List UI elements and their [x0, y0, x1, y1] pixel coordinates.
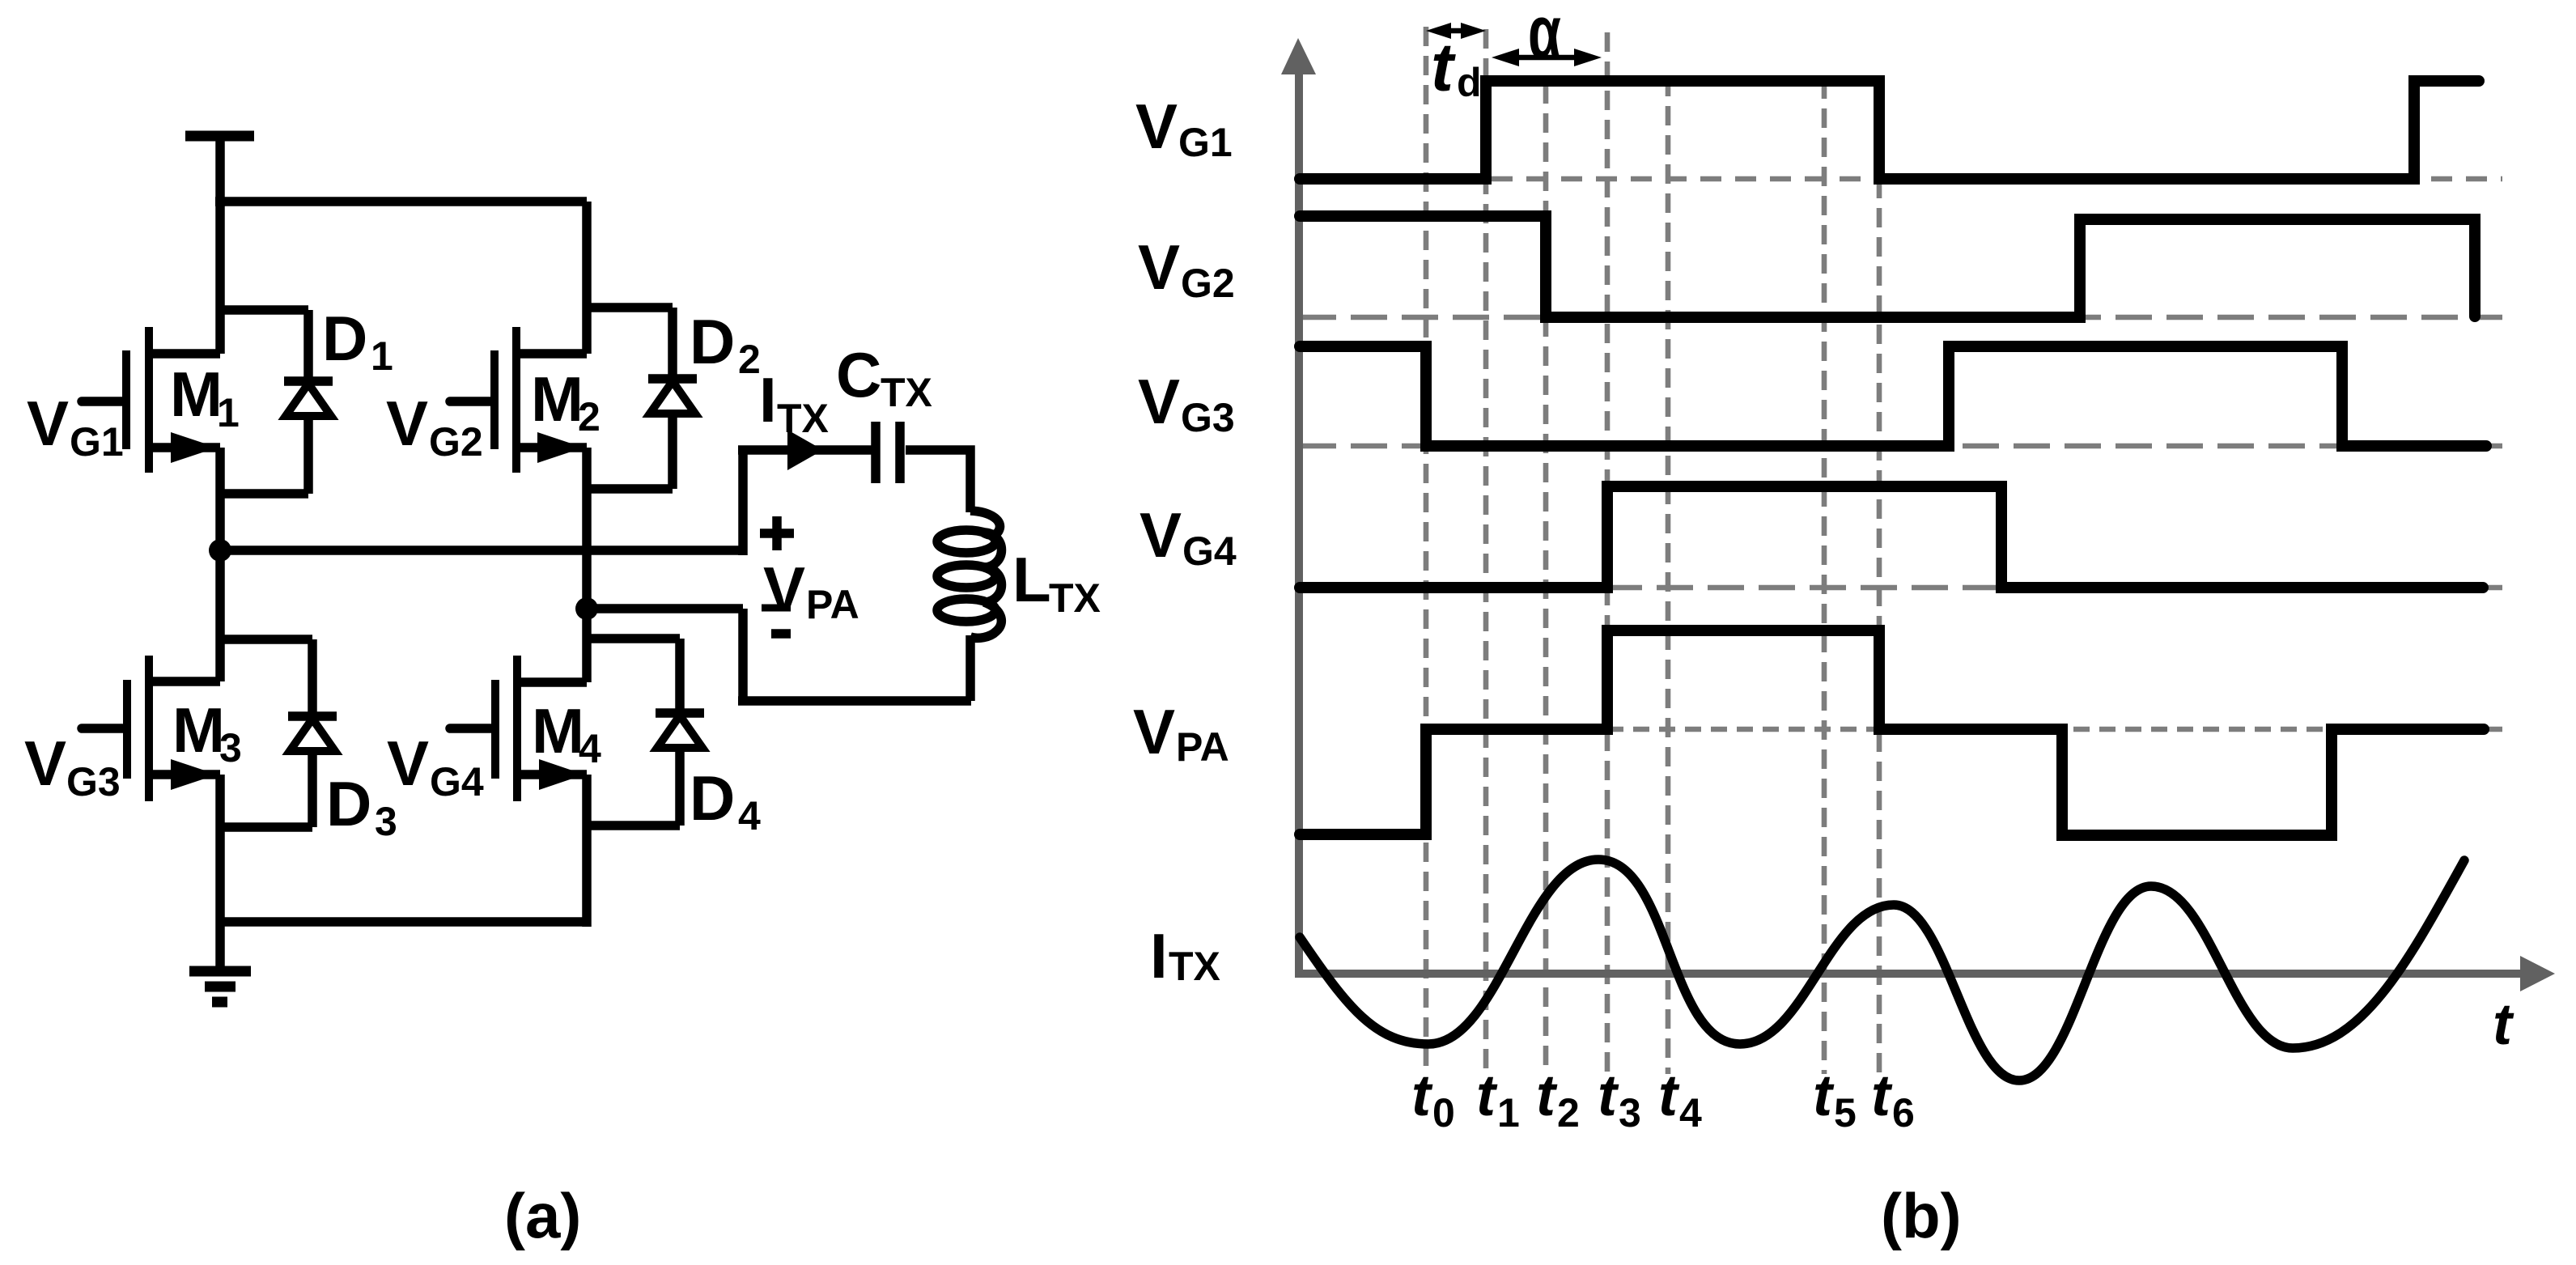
- svg-text:3: 3: [219, 725, 242, 770]
- diode D4: [656, 639, 704, 826]
- label VG3: [24, 728, 121, 804]
- t axis: [1295, 956, 2555, 991]
- label VG1 row: [1135, 91, 1233, 165]
- wire ITX: [738, 445, 872, 455]
- svg-text:TX: TX: [1049, 575, 1101, 621]
- label D1: [322, 303, 393, 379]
- wire M4 source: [582, 775, 592, 927]
- svg-text:M: M: [531, 363, 584, 435]
- y axis: [1281, 38, 1316, 978]
- waveform VG1: [1300, 81, 2479, 179]
- wire D4 top tee: [587, 634, 680, 643]
- svg-text:M: M: [172, 694, 225, 766]
- label M1: [170, 359, 240, 435]
- label t5: [1813, 1063, 1857, 1136]
- ground symbol: [189, 971, 251, 1002]
- wire M2 source: [582, 448, 592, 609]
- node t6 gridline: [1877, 179, 1882, 1074]
- svg-text:G1: G1: [1178, 120, 1233, 165]
- wire D2 bottom tee: [587, 484, 673, 494]
- node t2 gridline: [1543, 84, 1549, 1074]
- diode D3: [288, 639, 337, 827]
- wire M1 source: [215, 448, 225, 550]
- node t1 gridline: [1483, 29, 1489, 1074]
- svg-text:1: 1: [217, 390, 240, 435]
- label t2: [1536, 1063, 1580, 1136]
- label ITX row: [1150, 920, 1220, 991]
- svg-text:G1: G1: [70, 419, 124, 465]
- label VG3 row: [1138, 366, 1235, 440]
- svg-text:V: V: [24, 728, 66, 799]
- wire node A to VPA+: [220, 545, 743, 555]
- dimension arrow td: [1426, 23, 1486, 39]
- label M3: [172, 694, 242, 770]
- label D4: [690, 762, 761, 838]
- svg-text:G2: G2: [429, 419, 483, 465]
- node t0 gridline: [1424, 27, 1429, 1074]
- svg-text:d: d: [1457, 60, 1482, 105]
- svg-text:TX: TX: [777, 396, 829, 441]
- svg-text:t: t: [1871, 1063, 1893, 1128]
- waveform VG3: [1300, 346, 2486, 446]
- svg-text:1: 1: [1497, 1090, 1520, 1136]
- VDD supply bar: [185, 131, 254, 142]
- wire CTX to LTX: [906, 450, 970, 512]
- dimension arrow alpha: [1492, 49, 1602, 66]
- label t0: [1411, 1063, 1455, 1136]
- ITX current arrow: [787, 430, 823, 470]
- svg-text:G2: G2: [1181, 261, 1235, 306]
- svg-text:4: 4: [579, 726, 601, 771]
- label t4: [1658, 1063, 1702, 1136]
- label M2: [531, 363, 601, 439]
- svg-text:V: V: [387, 728, 429, 799]
- svg-text:t: t: [1431, 29, 1456, 105]
- svg-text:D: D: [690, 762, 735, 834]
- svg-text:V: V: [1139, 499, 1182, 571]
- svg-text:α: α: [1528, 0, 1561, 74]
- wire D1 bottom tee: [220, 489, 308, 499]
- node t3 gridline: [1605, 32, 1611, 1074]
- VG4 baseline dashed: [1300, 585, 2502, 591]
- capacitor CTX: [876, 422, 900, 483]
- transistor M4: [450, 656, 587, 801]
- diode D2: [648, 308, 697, 489]
- wire M3 source to ground: [215, 775, 225, 971]
- svg-text:D: D: [690, 306, 735, 377]
- wire bottom to LTX: [738, 696, 971, 706]
- VG2 baseline dashed: [1300, 315, 2502, 320]
- svg-text:D: D: [322, 303, 367, 374]
- svg-text:6: 6: [1892, 1090, 1915, 1136]
- label VG2: [386, 388, 483, 465]
- VPA baseline dashed: [1426, 727, 2502, 732]
- svg-text:G3: G3: [66, 759, 121, 804]
- svg-text:3: 3: [1619, 1090, 1641, 1136]
- label td: [1431, 29, 1482, 105]
- wire node B to VPA-: [587, 604, 743, 613]
- label VG2 row: [1138, 231, 1235, 306]
- svg-text:G4: G4: [430, 759, 484, 804]
- svg-text:t: t: [1813, 1063, 1835, 1128]
- svg-text:4: 4: [738, 793, 761, 838]
- label t1: [1476, 1063, 1520, 1136]
- label t3: [1598, 1063, 1641, 1136]
- svg-text:TX: TX: [881, 370, 932, 415]
- svg-text:1: 1: [371, 333, 393, 379]
- inductor LTX: [937, 511, 1002, 701]
- VG3 baseline dashed: [1300, 444, 2502, 449]
- svg-text:G4: G4: [1182, 528, 1237, 574]
- timing diagram dashed grid: [1300, 27, 2502, 1074]
- svg-text:I: I: [759, 364, 777, 435]
- node t4 gridline: [1666, 77, 1671, 1074]
- svg-text:V: V: [1138, 366, 1180, 437]
- svg-text:M: M: [532, 695, 584, 766]
- underline of VPA: [762, 605, 791, 612]
- label VPA row: [1133, 696, 1229, 770]
- wire D2 top tee: [587, 303, 673, 312]
- wire D3 top tee: [220, 635, 312, 644]
- label D3: [326, 768, 397, 844]
- wire ground bus: [220, 917, 587, 927]
- plus sign VPA: [760, 516, 794, 550]
- svg-text:PA: PA: [806, 582, 859, 627]
- svg-text:V: V: [386, 388, 428, 459]
- svg-text:G3: G3: [1181, 395, 1235, 440]
- label VPA: [763, 554, 859, 627]
- transistor M1: [82, 327, 220, 473]
- label D2: [690, 306, 761, 382]
- svg-text:V: V: [1135, 91, 1178, 162]
- node A junction: [209, 539, 231, 562]
- VG1 baseline dashed: [1492, 176, 2502, 182]
- svg-text:M: M: [170, 359, 223, 430]
- svg-text:0: 0: [1432, 1090, 1455, 1136]
- svg-text:TX: TX: [1169, 944, 1220, 989]
- svg-text:D: D: [326, 768, 371, 839]
- waveform VG2: [1300, 216, 2475, 317]
- svg-text:PA: PA: [1176, 724, 1229, 770]
- minus sign VPA: [771, 629, 791, 639]
- wire VDD stem: [215, 139, 225, 206]
- node B junction: [575, 597, 598, 620]
- wire top rail: [215, 197, 587, 206]
- svg-text:L: L: [1012, 544, 1051, 615]
- label VG1: [27, 388, 124, 465]
- svg-text:2: 2: [578, 394, 601, 439]
- wire M2 drain riser: [582, 202, 592, 354]
- svg-text:t: t: [2493, 992, 2514, 1057]
- svg-text:2: 2: [1557, 1090, 1580, 1136]
- label VG4: [387, 728, 484, 804]
- label VG4 row: [1139, 499, 1237, 574]
- svg-text:5: 5: [1834, 1090, 1857, 1136]
- wire VPA+ up: [738, 450, 748, 555]
- label LTX: [1012, 544, 1101, 621]
- svg-text:V: V: [1133, 696, 1175, 767]
- label t6: [1871, 1063, 1915, 1136]
- wire VPA- down: [738, 609, 748, 701]
- svg-text:V: V: [763, 554, 805, 625]
- svg-text:t: t: [1536, 1063, 1558, 1128]
- wire D4 bottom tee: [587, 821, 680, 830]
- svg-text:t: t: [1476, 1063, 1498, 1128]
- svg-text:2: 2: [738, 337, 761, 382]
- svg-text:V: V: [27, 388, 69, 459]
- node t5 gridline: [1822, 79, 1827, 1074]
- svg-text:I: I: [1150, 920, 1168, 991]
- wire M4 drain riser: [582, 609, 592, 682]
- transistor M2: [450, 327, 587, 473]
- wire M1 drain riser: [215, 202, 225, 354]
- svg-text:t: t: [1598, 1063, 1619, 1128]
- wire D3 bottom tee: [220, 822, 312, 832]
- svg-text:3: 3: [375, 799, 397, 844]
- waveform VG4: [1300, 486, 2483, 588]
- svg-text:(a): (a): [504, 1180, 581, 1251]
- svg-text:4: 4: [1679, 1090, 1702, 1136]
- svg-text:C: C: [836, 339, 881, 410]
- svg-text:(b): (b): [1881, 1180, 1962, 1251]
- label ITX: [759, 364, 829, 441]
- svg-text:V: V: [1138, 231, 1180, 303]
- label CTX: [836, 339, 932, 415]
- svg-text:t: t: [1658, 1063, 1680, 1128]
- diode D1: [284, 310, 333, 494]
- wire M3 drain riser: [215, 550, 225, 681]
- transistor M3: [82, 656, 220, 801]
- svg-text:t: t: [1411, 1063, 1433, 1128]
- waveform VPA: [1300, 630, 2484, 835]
- wire D1 top tee: [220, 305, 308, 315]
- waveform ITX sine: [1300, 860, 2464, 1080]
- label M4: [532, 695, 601, 771]
